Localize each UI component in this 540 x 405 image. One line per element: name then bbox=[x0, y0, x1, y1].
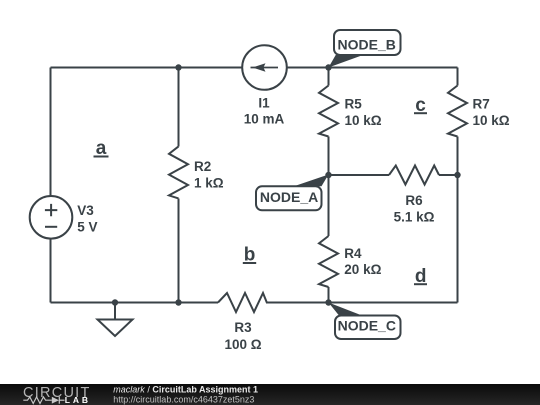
ground stem bbox=[114, 303, 116, 320]
current source I1 arrowhead bbox=[253, 63, 266, 71]
resistor R3 bbox=[218, 293, 267, 312]
footer bar bbox=[0, 384, 540, 405]
resistor R4 bbox=[319, 236, 338, 287]
resistor R7 bbox=[448, 86, 467, 137]
node c letter bbox=[414, 95, 427, 116]
svg-text:10 kΩ: 10 kΩ bbox=[345, 113, 382, 128]
svg-text:http://circuitlab.com/c46437ze: http://circuitlab.com/c46437zet5nz3 bbox=[113, 394, 254, 404]
label R2 value bbox=[194, 159, 224, 191]
wire R6 to right rail bbox=[439, 174, 458, 176]
junction dot R6 right bbox=[454, 172, 460, 178]
svg-text:R2: R2 bbox=[194, 159, 211, 174]
label I1 value bbox=[244, 95, 285, 126]
label R4 value bbox=[344, 246, 381, 277]
label R7 value bbox=[473, 97, 510, 128]
junction dot NODE_B bbox=[325, 64, 331, 70]
svg-text:1 kΩ: 1 kΩ bbox=[194, 176, 224, 191]
voltage source V3 plus sign bbox=[45, 204, 57, 216]
svg-text:V3: V3 bbox=[77, 203, 94, 218]
wire bottom rail right bbox=[266, 302, 458, 304]
svg-text:10 kΩ: 10 kΩ bbox=[473, 113, 510, 128]
wire right rail upper bbox=[457, 68, 459, 86]
label V3 value bbox=[77, 203, 97, 234]
wire R2 branch upper bbox=[178, 68, 180, 147]
wire R2 branch lower bbox=[178, 199, 180, 303]
callout NODE_B bbox=[329, 30, 401, 68]
svg-text:I1: I1 bbox=[258, 95, 270, 110]
svg-text:R4: R4 bbox=[344, 246, 362, 261]
label R5 value bbox=[345, 97, 382, 128]
ground triangle bbox=[98, 320, 133, 337]
wire R5 branch upper bbox=[328, 68, 330, 86]
resistor R6 bbox=[389, 166, 439, 185]
svg-text:R7: R7 bbox=[473, 97, 490, 112]
svg-text:5.1 kΩ: 5.1 kΩ bbox=[394, 210, 435, 225]
node b letter bbox=[243, 245, 256, 266]
wire top rail bbox=[51, 67, 458, 69]
junction dot R2 bottom bbox=[175, 299, 181, 305]
voltage source V3 minus sign bbox=[45, 226, 57, 228]
svg-text:LAB: LAB bbox=[65, 395, 91, 405]
svg-text:R5: R5 bbox=[345, 97, 363, 112]
wire left rail bbox=[50, 68, 52, 303]
current source I1 circle bbox=[242, 45, 287, 90]
label R3 value bbox=[224, 320, 261, 352]
svg-text:R6: R6 bbox=[405, 193, 423, 208]
wire node A to R6 bbox=[329, 174, 390, 176]
wire R5 to node A bbox=[328, 137, 330, 176]
wire bottom rail left bbox=[51, 302, 219, 304]
CircuitLab logo wordmark bbox=[23, 385, 91, 401]
CircuitLab logo resistor-diode glyph bbox=[23, 397, 64, 404]
current source I1 arrow line bbox=[251, 67, 279, 69]
callout NODE_A bbox=[256, 175, 329, 211]
junction dot node a top bbox=[175, 64, 181, 70]
voltage source V3 circle bbox=[30, 196, 73, 239]
svg-text:5 V: 5 V bbox=[77, 219, 97, 234]
svg-text:NODE_B: NODE_B bbox=[338, 36, 396, 52]
junction dot NODE_C bbox=[325, 299, 331, 305]
label R6 value bbox=[394, 193, 435, 225]
svg-text:NODE_A: NODE_A bbox=[260, 189, 318, 205]
wire node A to R4 bbox=[328, 175, 330, 236]
callout NODE_C bbox=[329, 303, 401, 340]
svg-text:100 Ω: 100 Ω bbox=[224, 337, 261, 352]
wire R4 to node C bbox=[328, 287, 330, 303]
resistor R2 bbox=[169, 146, 188, 198]
junction dot NODE_A bbox=[325, 172, 331, 178]
svg-text:maclark / CircuitLab Assignmen: maclark / CircuitLab Assignment 1 bbox=[113, 385, 258, 395]
svg-text:R3: R3 bbox=[234, 320, 252, 335]
svg-text:10 mA: 10 mA bbox=[244, 112, 285, 127]
wire right rail lower bbox=[457, 137, 459, 303]
node d letter bbox=[414, 266, 427, 287]
svg-text:NODE_C: NODE_C bbox=[338, 318, 396, 334]
resistor R5 bbox=[319, 86, 338, 137]
svg-text:20 kΩ: 20 kΩ bbox=[344, 262, 381, 277]
junction dot ground bbox=[112, 299, 118, 305]
node a letter bbox=[94, 138, 109, 159]
CircuitLab logo diode arrow bbox=[52, 397, 59, 404]
